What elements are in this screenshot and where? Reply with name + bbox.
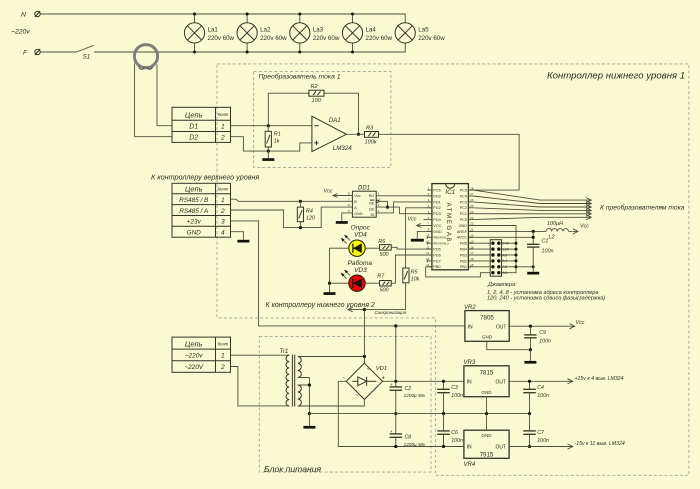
svg-text:+15v к 4 выв. LM324: +15v к 4 выв. LM324 bbox=[575, 376, 624, 382]
wire VR4 OUT -15v bbox=[509, 441, 625, 449]
current converter dashed box bbox=[254, 72, 391, 168]
wire secondary center tap bbox=[298, 378, 310, 414]
op-amp DA1 LM324 bbox=[312, 116, 352, 152]
lamp La1 bbox=[184, 14, 234, 52]
svg-text:PB7/XTAL2: PB7/XTAL2 bbox=[433, 242, 449, 246]
resistor R5 10k bbox=[403, 268, 420, 283]
wire DD1 RO to IC1 PD0 bbox=[376, 195, 432, 197]
svg-text:VD4: VD4 bbox=[354, 232, 367, 239]
svg-text:La4: La4 bbox=[366, 26, 377, 33]
capacitor C1 100n bbox=[527, 239, 554, 255]
svg-text:Конт: Конт bbox=[218, 341, 229, 346]
wire RS485 B to DD1 bbox=[231, 199, 353, 201]
svg-text:10: 10 bbox=[426, 239, 430, 243]
wire VR4 GND bbox=[486, 414, 488, 431]
wire DD1 RE tie to DE bbox=[379, 201, 388, 207]
svg-text:+: + bbox=[390, 382, 393, 387]
svg-text:~: ~ bbox=[355, 392, 359, 399]
wire CT secondary right to D1 bbox=[157, 65, 172, 126]
svg-text:OUT: OUT bbox=[495, 445, 506, 451]
svg-text:IC1: IC1 bbox=[445, 189, 455, 196]
wire C1 to ground bbox=[532, 247, 534, 272]
wire GND pin4 to ground bbox=[231, 232, 244, 240]
svg-text:R6: R6 bbox=[378, 239, 385, 245]
svg-text:~: ~ bbox=[367, 366, 371, 373]
svg-text:Преобразователь тока 1: Преобразователь тока 1 bbox=[259, 73, 341, 81]
regulator VR4 7915 bbox=[464, 430, 510, 468]
current transformer ring bbox=[134, 45, 157, 70]
node C3 bottom bbox=[442, 412, 445, 415]
wire D2 to op-amp non-inverting input bbox=[231, 137, 312, 151]
svg-text:PD6: PD6 bbox=[433, 253, 440, 257]
svg-text:C1: C1 bbox=[542, 239, 549, 245]
svg-text:PB6/XTAL1: PB6/XTAL1 bbox=[433, 236, 449, 240]
svg-text:AVCC: AVCC bbox=[457, 236, 468, 240]
svg-text:PB1: PB1 bbox=[460, 265, 467, 269]
LED VD4 yellow bbox=[341, 235, 365, 257]
wire IC1 left GND to ground bbox=[411, 231, 432, 241]
wire F line bbox=[94, 43, 405, 52]
terminal F bbox=[23, 49, 40, 57]
svg-text:GND: GND bbox=[354, 212, 363, 216]
wire DD1 GND to ground bbox=[336, 213, 353, 224]
svg-text:IN: IN bbox=[467, 380, 472, 386]
svg-text:R3: R3 bbox=[366, 125, 374, 131]
wire plus column to +23v line bbox=[395, 326, 397, 381]
svg-text:~220v: ~220v bbox=[185, 353, 203, 360]
svg-text:4: 4 bbox=[221, 229, 225, 236]
svg-text:Блок питания: Блок питания bbox=[264, 464, 322, 474]
regulator VR2 7805 bbox=[464, 305, 509, 342]
svg-text:VR2: VR2 bbox=[464, 305, 476, 311]
svg-text:Tr1: Tr1 bbox=[280, 348, 289, 355]
svg-text:+: + bbox=[390, 429, 393, 434]
connector X2 table (RS485) bbox=[172, 183, 231, 237]
node R1 bottom bbox=[267, 150, 270, 153]
svg-text:RO: RO bbox=[369, 194, 375, 198]
wires PB5-PB1 to jumpers bbox=[468, 242, 490, 244]
svg-text:PC6: PC6 bbox=[433, 189, 440, 193]
lamp La3 bbox=[290, 14, 340, 52]
svg-text:La5: La5 bbox=[418, 26, 429, 33]
node R4 top bbox=[299, 200, 302, 203]
node C2 ground bbox=[394, 412, 397, 415]
svg-text:RS485 / B: RS485 / B bbox=[179, 197, 209, 204]
capacitor C3 100n bbox=[437, 381, 463, 413]
node AVCC bbox=[532, 236, 535, 239]
wire R5 branch to IC1 PD2 bbox=[406, 208, 432, 268]
svg-text:500: 500 bbox=[380, 252, 389, 258]
pin ticks XTAL and unused bbox=[426, 236, 428, 239]
svg-text:PD2: PD2 bbox=[433, 206, 440, 210]
wire VR3 GND bbox=[486, 397, 488, 414]
svg-text:120: 120 bbox=[306, 216, 315, 222]
svg-text:PD3: PD3 bbox=[433, 212, 440, 216]
wire op-amp output to R3 bbox=[346, 133, 364, 135]
resistor R4 120 bbox=[297, 201, 315, 227]
node C6 bottom bbox=[442, 445, 445, 448]
svg-text:Цепь: Цепь bbox=[185, 185, 203, 194]
svg-text:C6: C6 bbox=[451, 430, 458, 436]
svg-text:1: 1 bbox=[221, 124, 225, 131]
svg-text:120, 240 - установка сдвига фа: 120, 240 - установка сдвига фазы(задержк… bbox=[487, 296, 605, 302]
svg-text:220v 60w: 220v 60w bbox=[366, 35, 393, 42]
svg-text:220v 60w: 220v 60w bbox=[208, 35, 235, 42]
node RE DE tie bbox=[386, 206, 389, 209]
svg-text:N: N bbox=[21, 12, 26, 19]
wire VR2 OUT to Vcc bbox=[509, 320, 585, 329]
wire VR2 GND bbox=[487, 341, 531, 349]
node lamp1 junctions bbox=[193, 13, 196, 16]
svg-text:10k: 10k bbox=[411, 276, 420, 282]
svg-text:+23v: +23v bbox=[187, 219, 202, 226]
svg-text:220v 60w: 220v 60w bbox=[260, 35, 287, 42]
svg-text:R5: R5 bbox=[411, 269, 419, 275]
wire PB0 loop to jumper A1 bbox=[426, 267, 491, 277]
svg-text:PC1: PC1 bbox=[460, 212, 467, 216]
svg-text:La2: La2 bbox=[260, 26, 271, 33]
svg-text:PC0: PC0 bbox=[460, 218, 467, 222]
node secondary top bbox=[363, 355, 366, 358]
wire DD1 DE to IC1 PD3 bbox=[376, 207, 432, 214]
svg-text:GND: GND bbox=[187, 229, 202, 236]
svg-text:GND: GND bbox=[482, 335, 493, 340]
wire bridge minus rail bbox=[338, 381, 464, 446]
ground under pin4 bbox=[237, 240, 249, 243]
svg-text:La3: La3 bbox=[313, 26, 324, 33]
svg-text:PB5: PB5 bbox=[460, 242, 467, 246]
capacitor C2 2200u bbox=[390, 381, 427, 413]
svg-text:PD5: PD5 bbox=[433, 248, 440, 252]
svg-text:Vcc: Vcc bbox=[354, 194, 360, 198]
wire secondary bottom to bridge bbox=[298, 399, 365, 406]
svg-text:PC4: PC4 bbox=[460, 194, 467, 198]
node R4 bottom bbox=[299, 226, 302, 229]
svg-text:C4: C4 bbox=[537, 385, 544, 391]
controller dashed boundary bbox=[217, 64, 689, 475]
svg-text:К контроллеру нижнего уровня 2: К контроллеру нижнего уровня 2 bbox=[266, 302, 375, 309]
connector X1 table (D1/D2) bbox=[172, 107, 231, 142]
node C8 minus rail bbox=[394, 445, 397, 448]
capacitor C9 100n bbox=[524, 326, 551, 350]
svg-text:100n: 100n bbox=[542, 249, 554, 255]
bridge rectifier VD1 bbox=[343, 363, 387, 399]
node LED bus bbox=[328, 282, 331, 285]
transceiver DD1 bbox=[348, 186, 381, 218]
wire ground rail bbox=[309, 413, 529, 415]
svg-text:C7: C7 bbox=[537, 430, 545, 436]
svg-text:100: 100 bbox=[312, 98, 322, 104]
wire N line bbox=[40, 14, 405, 23]
svg-text:RS485 / A: RS485 / A bbox=[179, 208, 208, 215]
wire feedback branch bbox=[268, 93, 358, 134]
svg-text:Конт: Конт bbox=[218, 112, 229, 117]
svg-text:Джампера:: Джампера: bbox=[487, 282, 517, 288]
lamp La4 bbox=[342, 14, 392, 52]
wire bus to C1 ground bbox=[516, 266, 533, 268]
svg-text:100n: 100n bbox=[451, 438, 463, 444]
svg-text:7805: 7805 bbox=[480, 314, 494, 321]
svg-text:GND: GND bbox=[481, 390, 492, 395]
node C4 top bbox=[528, 380, 531, 383]
svg-text:2200µ 50v: 2200µ 50v bbox=[403, 442, 426, 447]
svg-text:7915: 7915 bbox=[480, 452, 494, 459]
wire RS485 A to DD1 bbox=[231, 207, 353, 228]
svg-text:PB2: PB2 bbox=[460, 259, 467, 263]
svg-text:7815: 7815 bbox=[480, 370, 494, 377]
svg-text:R7: R7 bbox=[377, 274, 385, 280]
svg-text:L2: L2 bbox=[549, 235, 555, 241]
capacitor C7 100n bbox=[523, 414, 549, 447]
node lamp2 junctions bbox=[246, 13, 249, 16]
wire VD3 to R7 bbox=[365, 282, 379, 284]
node lamp3 junctions bbox=[298, 13, 301, 16]
svg-text:Контроллер нижнего уровня 1: Контроллер нижнего уровня 1 bbox=[547, 71, 685, 82]
svg-text:Цепь: Цепь bbox=[185, 111, 203, 120]
power supply dashed box bbox=[259, 336, 431, 472]
ground under C9 bbox=[524, 350, 536, 364]
connector X3 table (~220v) bbox=[172, 337, 231, 372]
svg-text:GND: GND bbox=[433, 230, 442, 234]
wire AVCC tie bbox=[468, 231, 533, 244]
wire mains pin2 to Tr1 primary bbox=[231, 367, 290, 406]
resistor R7 500 bbox=[377, 274, 391, 294]
terminal N bbox=[21, 11, 40, 19]
svg-text:К преобразователям тока: К преобразователям тока bbox=[600, 204, 685, 212]
svg-text:VCC: VCC bbox=[433, 224, 441, 228]
wire AREF line with inductor bbox=[468, 230, 546, 232]
wire VR3 OUT +15v bbox=[509, 376, 624, 384]
node R1 top bbox=[267, 124, 270, 127]
svg-text:DD1: DD1 bbox=[358, 186, 370, 192]
svg-text:DI: DI bbox=[371, 213, 375, 217]
wire sync to bridge top bbox=[363, 310, 365, 357]
svg-text:S1: S1 bbox=[83, 54, 91, 61]
svg-text:+: + bbox=[382, 375, 386, 381]
svg-text:Vcc: Vcc bbox=[408, 217, 417, 223]
svg-text:Синхронизация: Синхронизация bbox=[375, 310, 407, 315]
wire secondary top to bridge bbox=[298, 357, 365, 364]
inductor L2 100uH bbox=[546, 221, 568, 241]
svg-text:PC2: PC2 bbox=[460, 206, 467, 210]
svg-text:~220v: ~220v bbox=[11, 29, 30, 36]
wire CT secondary left to D2 bbox=[135, 64, 173, 137]
resistor R3 100k bbox=[365, 125, 379, 145]
svg-text:PC3: PC3 bbox=[460, 200, 467, 204]
wire R5 to sync line bbox=[405, 283, 407, 310]
capacitor C8 2200u bbox=[390, 414, 427, 447]
svg-text:PD0: PD0 bbox=[433, 194, 440, 198]
node center tap bbox=[308, 383, 311, 386]
svg-text:Vcc: Vcc bbox=[580, 223, 589, 229]
svg-text:D2: D2 bbox=[189, 135, 198, 142]
wires PC5-PC0 to converters with arrows bbox=[473, 190, 590, 200]
svg-text:VD3: VD3 bbox=[354, 267, 367, 274]
wire R6 to IC1 PD5 bbox=[391, 247, 432, 249]
svg-text:Цепь: Цепь bbox=[185, 339, 203, 348]
capacitor C4 100n bbox=[523, 381, 549, 413]
wire IC1 VCC arrow bbox=[408, 217, 432, 228]
node C9 top bbox=[529, 325, 532, 328]
svg-text:1k: 1k bbox=[274, 139, 280, 145]
svg-text:-15v к 11 выв. LM324: -15v к 11 выв. LM324 bbox=[575, 441, 625, 447]
svg-text:GND: GND bbox=[459, 224, 468, 228]
wire +23v to VR2 IN bbox=[231, 221, 465, 326]
svg-text:3: 3 bbox=[221, 219, 225, 226]
capacitor C6 100n bbox=[437, 414, 463, 447]
node C4 bottom bbox=[528, 412, 531, 415]
node C9 bottom bbox=[529, 348, 532, 351]
wire R3 output to IC1 PC5 bbox=[379, 134, 520, 190]
node plus rail tap bbox=[394, 380, 397, 383]
svg-text:D1: D1 bbox=[189, 124, 198, 131]
svg-text:DE: DE bbox=[369, 207, 375, 211]
svg-text:PB3: PB3 bbox=[460, 253, 467, 257]
svg-text:RE: RE bbox=[369, 201, 375, 205]
lamp La5 bbox=[395, 23, 445, 43]
lamp La2 bbox=[237, 14, 287, 52]
svg-text:IN: IN bbox=[468, 324, 473, 330]
svg-text:DA1: DA1 bbox=[329, 117, 341, 124]
svg-text:PD4: PD4 bbox=[433, 218, 440, 222]
svg-text:R4: R4 bbox=[306, 209, 313, 215]
svg-text:C8: C8 bbox=[405, 435, 412, 441]
wire VD4 to R6 bbox=[365, 247, 379, 249]
svg-text:100k: 100k bbox=[365, 140, 378, 146]
wire sync line with arrow bbox=[348, 307, 406, 311]
svg-text:C3: C3 bbox=[451, 385, 458, 391]
wire DD1 DI to IC1 PD1 bbox=[376, 202, 432, 213]
svg-text:VR4: VR4 bbox=[464, 462, 476, 468]
node C7 bottom bbox=[528, 445, 531, 448]
wire VD4 anode bus bbox=[330, 248, 349, 283]
svg-text:13: 13 bbox=[426, 257, 430, 261]
switch S1 bbox=[77, 45, 94, 60]
svg-text:Vcc: Vcc bbox=[576, 320, 585, 326]
svg-text:PB0: PB0 bbox=[433, 265, 440, 269]
node tap on ground rail bbox=[308, 412, 311, 415]
wire D1 to op-amp inverting input bbox=[231, 125, 312, 127]
node lamp4 junctions bbox=[351, 13, 354, 16]
svg-text:100n: 100n bbox=[537, 438, 549, 444]
jumper block JP bbox=[490, 240, 510, 277]
svg-text:Работа: Работа bbox=[348, 259, 373, 267]
resistor R1 1k bbox=[265, 126, 281, 151]
node op-amp output bbox=[357, 133, 360, 136]
ground under LED bus bbox=[324, 283, 336, 295]
svg-text:К контроллеру верхнего уровня: К контроллеру верхнего уровня bbox=[151, 173, 259, 182]
node AREF bbox=[532, 230, 535, 233]
svg-text:~220V: ~220V bbox=[184, 364, 203, 371]
wire F terminal to switch bbox=[40, 51, 76, 53]
wire jumper ground bus to IC1 GND bbox=[468, 226, 516, 273]
svg-text:VD1: VD1 bbox=[376, 366, 387, 372]
svg-text:OUT: OUT bbox=[495, 380, 506, 386]
svg-text:100n: 100n bbox=[451, 393, 463, 399]
svg-text:2: 2 bbox=[220, 135, 225, 142]
svg-text:OUT: OUT bbox=[496, 324, 507, 330]
svg-text:IN: IN bbox=[467, 445, 472, 451]
resistor R2 100 bbox=[309, 84, 324, 104]
ground under R1 bbox=[262, 151, 274, 161]
ground under C1 bbox=[527, 272, 539, 275]
svg-text:PC5: PC5 bbox=[460, 189, 467, 193]
svg-text:Опрос: Опрос bbox=[351, 224, 371, 231]
wire R7 to IC1 PD6 bbox=[391, 255, 432, 283]
svg-text:100µH: 100µH bbox=[547, 221, 563, 227]
microcontroller IC1 ATmega8 bbox=[426, 184, 474, 270]
resistor R6 500 bbox=[378, 239, 391, 258]
regulator VR3 7815 bbox=[464, 360, 510, 396]
svg-text:PD1: PD1 bbox=[433, 200, 440, 204]
node sync branch bbox=[363, 308, 366, 311]
transformer Tr1 bbox=[280, 348, 302, 406]
wire mains pin1 to Tr1 primary bbox=[231, 354, 290, 356]
svg-text:1: 1 bbox=[221, 353, 225, 360]
ground under center tap bbox=[303, 414, 315, 429]
svg-text:100n: 100n bbox=[539, 339, 551, 345]
svg-text:PD7: PD7 bbox=[433, 259, 440, 263]
svg-text:AREF: AREF bbox=[457, 230, 468, 234]
svg-text:220v 60w: 220v 60w bbox=[418, 35, 445, 42]
svg-text:Конт: Конт bbox=[218, 187, 229, 192]
node VR GND rail bbox=[485, 412, 488, 415]
svg-text:-: - bbox=[343, 375, 345, 381]
svg-text:2200µ 50v: 2200µ 50v bbox=[403, 393, 426, 398]
node +23v tap bbox=[394, 324, 397, 327]
svg-text:220v 60w: 220v 60w bbox=[313, 35, 340, 42]
svg-text:La1: La1 bbox=[208, 26, 219, 33]
svg-text:GND: GND bbox=[481, 433, 492, 438]
svg-text:R1: R1 bbox=[274, 132, 281, 138]
wire L2 to Vcc arrow bbox=[569, 223, 590, 234]
svg-text:2: 2 bbox=[220, 208, 225, 215]
svg-text:C2: C2 bbox=[405, 386, 412, 392]
wire DD1 Vcc arrow bbox=[324, 188, 353, 197]
wire bridge plus rail bbox=[383, 380, 464, 382]
svg-text:C9: C9 bbox=[539, 330, 546, 336]
LED VD3 red bbox=[341, 270, 365, 292]
svg-text:R2: R2 bbox=[311, 84, 319, 90]
svg-text:1: 1 bbox=[221, 197, 225, 204]
pin DD1 RE circle bbox=[376, 200, 378, 202]
svg-text:100n: 100n bbox=[537, 393, 549, 399]
svg-text:PB4: PB4 bbox=[460, 248, 467, 252]
svg-text:LM324: LM324 bbox=[333, 145, 352, 152]
svg-text:2: 2 bbox=[220, 364, 225, 371]
svg-text:500: 500 bbox=[380, 288, 389, 294]
svg-text:Vcc: Vcc bbox=[324, 188, 333, 194]
node C3 top bbox=[442, 380, 445, 383]
